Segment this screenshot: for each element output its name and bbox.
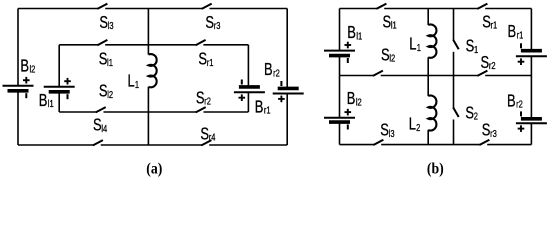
svg-text:r3: r3 (214, 20, 221, 31)
svg-text:B: B (347, 23, 356, 43)
switch Sl4 (93, 140, 103, 145)
svg-text:L: L (128, 72, 135, 92)
switch Sl1 (97, 40, 107, 45)
svg-text:l1: l1 (48, 98, 54, 109)
svg-text:B: B (39, 91, 48, 111)
switch S1 (453, 40, 459, 50)
label Bl1 (b) (347, 23, 362, 43)
inductor L1 (a) (148, 54, 156, 87)
switch Sl1 (b) (376, 4, 386, 9)
label Sr2 (b) (481, 53, 496, 73)
svg-text:B: B (347, 89, 356, 109)
svg-text:S: S (196, 88, 205, 108)
svg-text:r2: r2 (489, 60, 496, 71)
label L1 (b) (409, 35, 421, 55)
svg-text:r2: r2 (204, 95, 211, 106)
svg-text:l1: l1 (356, 30, 362, 41)
wire: (a) inner right (247, 45, 249, 112)
svg-text:l1: l1 (107, 57, 113, 68)
svg-text:S: S (481, 53, 490, 73)
svg-text:r1: r1 (207, 57, 214, 68)
label Sl2 (99, 82, 113, 102)
label Bl2 (20, 57, 35, 77)
svg-text:L: L (409, 35, 416, 55)
svg-text:r4: r4 (209, 131, 216, 142)
label Sr2 (196, 88, 211, 108)
wire: (a) outer right (286, 9, 288, 146)
svg-text:B: B (264, 60, 273, 80)
label Sl2 (b) (381, 45, 395, 65)
svg-text:l3: l3 (108, 20, 114, 31)
svg-text:1: 1 (474, 44, 478, 55)
svg-text:r3: r3 (490, 128, 497, 139)
svg-text:r1: r1 (517, 29, 524, 40)
svg-text:r1: r1 (264, 104, 271, 115)
battery Br2 (b) (516, 111, 547, 131)
wire: (b) top (340, 8, 532, 10)
svg-text:(b): (b) (427, 160, 444, 177)
svg-text:S: S (380, 121, 389, 141)
wire: (b) right (530, 9, 532, 145)
svg-text:S: S (381, 45, 390, 65)
battery Bl1 (44, 78, 75, 99)
wire: (a) outer left (17, 9, 19, 146)
switch Sr3 (202, 4, 212, 9)
svg-text:S: S (466, 37, 475, 57)
label Sl3 (b) (380, 121, 394, 141)
wire: (b) switch column (453, 9, 455, 145)
svg-text:B: B (255, 97, 264, 117)
label Sr3 (205, 13, 220, 33)
label Sl1 (99, 50, 113, 70)
wire: (b) bottom (340, 144, 532, 146)
inductor L1 (b) (428, 25, 436, 58)
battery Bl1 (b) (324, 42, 355, 63)
wire: (b) middle (340, 75, 532, 77)
svg-text:l4: l4 (101, 123, 107, 134)
svg-text:l2: l2 (356, 96, 362, 107)
label Sl4 (93, 116, 107, 136)
label Br1 (255, 97, 271, 117)
svg-text:1: 1 (417, 42, 421, 53)
svg-text:(a): (a) (146, 160, 162, 177)
caption (a) (146, 160, 162, 177)
svg-text:l1: l1 (391, 20, 397, 31)
svg-text:S: S (482, 121, 491, 141)
svg-text:S: S (99, 82, 108, 102)
svg-text:S: S (465, 103, 474, 123)
battery Bl2 (3, 77, 34, 98)
switch S2 (453, 108, 459, 118)
svg-text:B: B (507, 91, 516, 111)
label Sr1 (b) (482, 13, 497, 33)
label L1 (a) (128, 72, 140, 92)
switch Sr2 (b) (477, 71, 487, 76)
wire: (a) outer bottom (18, 144, 287, 146)
label Sr3 (b) (482, 121, 497, 141)
svg-text:B: B (508, 22, 517, 42)
svg-text:S: S (200, 124, 209, 144)
svg-text:L: L (409, 115, 416, 135)
label L2 (b) (409, 115, 421, 135)
svg-text:l3: l3 (389, 128, 395, 139)
switch Sr3 (b) (479, 140, 489, 145)
svg-text:r2: r2 (516, 98, 523, 109)
switch Sl3 (97, 4, 107, 9)
svg-text:2: 2 (416, 122, 420, 133)
label Bl1 (39, 91, 54, 111)
label Sl3 (99, 13, 113, 33)
inductor L2 (b) (428, 96, 436, 131)
svg-text:B: B (20, 57, 29, 77)
switch Sl2 (96, 107, 106, 112)
svg-text:S: S (383, 13, 392, 33)
label Bl2 (b) (347, 89, 362, 109)
switch Sl2 (b) (373, 71, 383, 76)
wire: (a) middle vertical (147, 9, 149, 146)
battery Br1 (234, 80, 265, 102)
switch Sr2 (196, 107, 206, 112)
svg-text:S: S (99, 13, 108, 33)
svg-text:1: 1 (135, 79, 139, 90)
battery Br1 (b) (516, 43, 547, 65)
label S2 (465, 103, 478, 123)
svg-text:l2: l2 (107, 89, 113, 100)
svg-text:r2: r2 (273, 67, 280, 78)
label Br1 (b) (508, 22, 524, 42)
svg-text:S: S (99, 50, 108, 70)
battery Br2 (273, 81, 304, 102)
label Sr1 (198, 50, 213, 70)
svg-text:2: 2 (474, 110, 478, 121)
wire: (a) inner bottom (59, 111, 248, 113)
svg-text:S: S (205, 13, 214, 33)
switch Sl3 (b) (373, 140, 383, 145)
label Br2 (b) (507, 91, 523, 111)
switch Sr1 (b) (477, 4, 487, 9)
wire: (a) inner left (58, 45, 60, 112)
wire: (b) left (339, 9, 341, 145)
svg-text:l2: l2 (29, 64, 35, 75)
label S1 (466, 37, 479, 57)
svg-text:r1: r1 (491, 20, 498, 31)
svg-text:S: S (93, 116, 102, 136)
label Br2 (264, 60, 280, 80)
label Sr4 (200, 124, 215, 144)
wire: (a) outer top (18, 8, 287, 10)
caption (b) (427, 160, 444, 177)
svg-text:S: S (198, 50, 207, 70)
switch Sr1 (196, 40, 206, 45)
battery Bl2 (b) (324, 109, 355, 130)
wire: (b) inductor column (427, 9, 429, 145)
label Sl1 (b) (383, 13, 397, 33)
switch Sr4 (201, 140, 211, 145)
svg-text:l2: l2 (389, 52, 395, 63)
wire: (a) inner top (59, 44, 248, 46)
svg-text:S: S (482, 13, 491, 33)
